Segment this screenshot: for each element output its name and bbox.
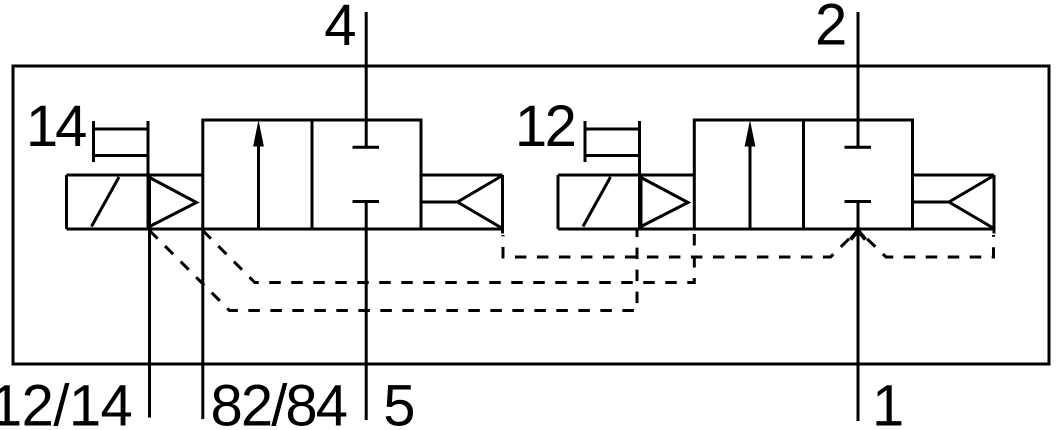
pilot supply line right from port 1: [860, 232, 994, 258]
port 12/14 line: [148, 229, 151, 418]
svg-text:1: 1: [872, 374, 904, 430]
valve V1 solenoid coil diagonal: [92, 177, 120, 227]
valve V1 solenoid/pilot junction divider: [147, 121, 150, 229]
svg-text:82/84: 82/84: [211, 374, 347, 430]
svg-text:4: 4: [324, 0, 356, 58]
pilot line from 82/84 junction to V2 body: [203, 231, 695, 283]
valve V2 actuator section frame: [558, 174, 694, 177]
port 1 line: [857, 202, 860, 422]
valve V2 top closed port T: [845, 146, 872, 149]
valve V1 top closed port T: [353, 146, 380, 149]
svg-text:5: 5: [383, 374, 415, 430]
valve V2 bottom closed port T: [845, 200, 872, 203]
port 4 line: [365, 12, 368, 147]
valve V1 body divider: [311, 120, 314, 229]
valve V1 flow arrow: [257, 142, 260, 228]
port 2 line: [857, 12, 860, 147]
port 5 line: [365, 202, 368, 421]
valve V1 actuator section frame: [67, 174, 203, 177]
valve V1 pilot port 14 Z-symbol: [92, 121, 95, 162]
valve V2 air spring return: [913, 174, 995, 177]
valve V1 pilot triangle: [150, 178, 197, 227]
valve V2 pilot port 12 Z-symbol: [584, 121, 587, 162]
svg-text:12: 12: [515, 94, 575, 159]
valve V2 pilot triangle: [641, 178, 688, 227]
valve V1 body: [203, 120, 421, 229]
valve V2 solenoid coil diagonal: [583, 177, 611, 227]
valve V1 air spring return: [421, 174, 503, 177]
valve V2 body: [694, 120, 912, 229]
valve V2 body divider: [802, 120, 805, 229]
pilot line from 12/14 junction to V2 pilot: [150, 231, 638, 311]
svg-text:2: 2: [815, 0, 847, 58]
svg-text:14: 14: [26, 94, 86, 159]
port 82/84 line: [201, 229, 204, 419]
valve V2 solenoid/pilot junction divider: [638, 121, 641, 229]
valve V1 bottom closed port T: [353, 200, 380, 203]
pilot supply arrowhead at port 1 junction: [851, 231, 866, 240]
pilot supply line left from port 1: [503, 232, 857, 258]
enclosure border (subbase outline): [13, 66, 1049, 364]
svg-text:12/14: 12/14: [0, 374, 132, 430]
valve V2 flow arrow: [749, 142, 752, 228]
